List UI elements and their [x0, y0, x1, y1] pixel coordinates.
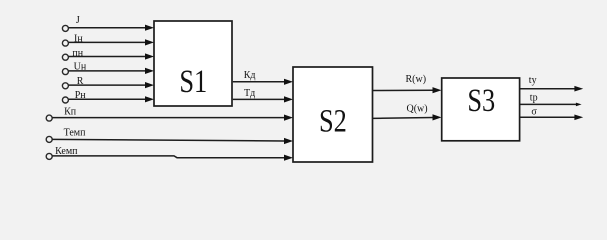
- svg-text:tp: tp: [530, 92, 538, 103]
- svg-text:Q(w): Q(w): [407, 104, 428, 115]
- svg-text:Кд: Кд: [244, 70, 256, 81]
- svg-text:Тд: Тд: [244, 88, 255, 99]
- svg-text:пн: пн: [72, 48, 83, 59]
- svg-text:σ: σ: [531, 107, 537, 118]
- svg-text:R(w): R(w): [406, 74, 427, 85]
- svg-text:Кемп: Кемп: [55, 146, 78, 157]
- svg-text:S2: S2: [319, 103, 347, 139]
- svg-text:Рн: Рн: [75, 90, 87, 101]
- svg-text:Кп: Кп: [64, 107, 77, 118]
- svg-text:Iн: Iн: [74, 34, 83, 45]
- svg-text:J: J: [76, 15, 80, 26]
- svg-text:Темп: Темп: [64, 128, 86, 139]
- svg-text:ty: ty: [529, 75, 537, 86]
- svg-text:R: R: [77, 76, 84, 87]
- svg-text:S1: S1: [179, 63, 207, 99]
- svg-text:Uн: Uн: [74, 61, 87, 72]
- svg-text:S3: S3: [467, 82, 495, 118]
